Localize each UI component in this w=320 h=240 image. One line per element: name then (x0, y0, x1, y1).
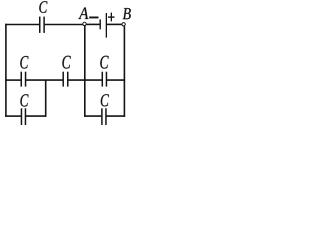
wire: middle horizontal, C4 to V4 (107, 79, 125, 81)
wire: inner vertical V2 (45, 80, 47, 117)
capacitor C1 (top), right plate (43, 17, 45, 33)
label C of capacitor C6 (101, 94, 109, 106)
wire: bottom horizontal right loop, V3 to C6 (84, 115, 101, 117)
capacitor C5 (bottom left), right plate (24, 108, 26, 125)
capacitor C3 (middle center), right plate (67, 72, 69, 87)
capacitor C2 (middle left), right plate (25, 72, 27, 87)
capacitor C5 (bottom left), left plate (20, 108, 22, 125)
capacitor C6 (bottom right), right plate (105, 108, 107, 125)
wire: top horizontal, C1 to node A (45, 24, 83, 26)
battery positive long plate (106, 13, 107, 38)
wire: bottom horizontal left loop, C5 to V2 (26, 115, 47, 117)
capacitor C4 (middle right), right plate (105, 72, 107, 87)
label A (78, 8, 88, 20)
wire: middle horizontal, V1 to C2 (5, 79, 21, 81)
wire: node A to battery (86, 23, 99, 25)
wire: right vertical V4 from node B down (123, 26, 125, 117)
capacitor C4 (middle right), left plate (101, 72, 103, 87)
wire: top horizontal, V1 to C1 (5, 24, 39, 26)
wire: middle horizontal, C3 to C4 (68, 79, 102, 81)
label C of capacitor C3 (62, 56, 70, 69)
battery polarity minus sign (89, 17, 98, 19)
capacitor C3 (middle center), left plate (62, 72, 64, 87)
node A open circle (83, 22, 86, 25)
capacitor C2 (middle left), left plate (20, 72, 22, 87)
capacitor C1 (top), left plate (39, 17, 41, 33)
capacitor C6 (bottom right), left plate (101, 108, 103, 125)
label C of capacitor C1 (39, 1, 47, 13)
battery negative short plate (100, 19, 101, 29)
node B open circle (122, 23, 125, 26)
wire: bottom horizontal left loop, V1 to C5 (5, 115, 21, 117)
label C of capacitor C4 (100, 56, 108, 69)
wire: branch vertical V3 under node A (84, 26, 86, 117)
label B (123, 8, 131, 19)
label C of capacitor C5 (20, 94, 28, 106)
wire: left vertical V1 (5, 24, 7, 117)
wire: battery to node B (107, 23, 122, 25)
wire: bottom horizontal right loop, C6 to V4 (106, 115, 125, 117)
battery polarity plus sign (108, 13, 115, 22)
label C of capacitor C2 (20, 56, 28, 69)
wire: middle horizontal, C2 to C3 (26, 79, 63, 81)
